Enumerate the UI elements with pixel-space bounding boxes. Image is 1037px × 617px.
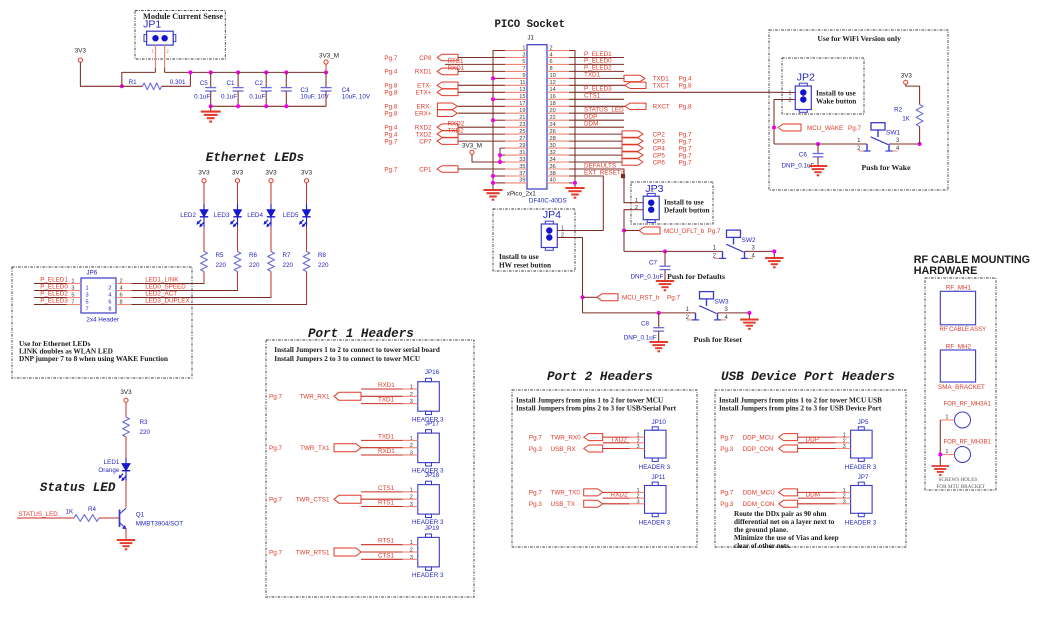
port2 note box: [512, 390, 697, 547]
svg-text:EXT_RESET#: EXT_RESET#: [584, 169, 625, 176]
JP1 note box Module Current Sense: [135, 10, 225, 59]
svg-text:HEADER 3: HEADER 3: [639, 464, 671, 471]
resistor R3 220: [123, 417, 151, 437]
svg-text:4: 4: [108, 292, 111, 298]
svg-text:Pg.8: Pg.8: [679, 83, 692, 90]
wire P_ELED2 to JP6 pin5: [34, 290, 68, 297]
wire J1 right ground rail: [569, 51, 575, 189]
svg-text:3V3: 3V3: [232, 170, 244, 177]
svg-text:LED4: LED4: [247, 212, 263, 219]
svg-text:Install Jumpers from pins 2 to: Install Jumpers from pins 2 to 3 for USB…: [516, 405, 677, 413]
ground rf: [932, 466, 950, 475]
svg-text:3: 3: [410, 555, 413, 561]
svg-text:JP17: JP17: [425, 421, 440, 428]
svg-text:Pg.7: Pg.7: [720, 490, 733, 497]
power 3V3_M: [319, 53, 339, 73]
svg-text:SCREWS HOLES: SCREWS HOLES: [939, 477, 978, 483]
resistor R6 220: [234, 252, 260, 272]
svg-text:TXD1: TXD1: [378, 397, 395, 404]
svg-text:3: 3: [410, 399, 413, 405]
wire 3V3 to R3: [125, 402, 127, 417]
wire LED5 to R8: [306, 227, 308, 252]
svg-text:P_ELED2: P_ELED2: [40, 290, 68, 297]
svg-text:TWR_TX1: TWR_TX1: [300, 445, 330, 452]
svg-text:HEADER 3: HEADER 3: [845, 464, 877, 471]
svg-text:USB_RX: USB_RX: [551, 446, 577, 453]
svg-text:C6: C6: [799, 152, 808, 159]
svg-text:39: 39: [519, 178, 525, 184]
net EXT_RESET# pin38 wire to JP4: [569, 169, 625, 230]
svg-text:0.1uF: 0.1uF: [194, 94, 210, 101]
svg-text:2: 2: [120, 279, 123, 285]
svg-text:1: 1: [522, 45, 525, 51]
svg-text:Push for Wake: Push for Wake: [862, 163, 912, 172]
svg-text:Pg.7: Pg.7: [848, 125, 861, 132]
svg-text:C7: C7: [649, 260, 658, 267]
wire 3V3 to LED5: [306, 183, 308, 204]
svg-text:Pg.7: Pg.7: [269, 497, 282, 504]
net P_ELED0 pin6: [569, 58, 624, 65]
resistor R1 0.301: [122, 79, 191, 90]
JP3 note box: [631, 182, 713, 224]
svg-text:Orange: Orange: [98, 467, 120, 474]
wire 3V3 to LED2: [203, 183, 205, 204]
title Ethernet LEDs: [206, 151, 304, 165]
svg-text:TWR_CTS1: TWR_CTS1: [296, 497, 330, 504]
power 3V3_M at J1: [462, 142, 482, 154]
svg-text:JP6: JP6: [86, 270, 97, 277]
svg-text:JP4: JP4: [543, 209, 561, 221]
title Port 2 Headers: [547, 370, 653, 384]
title Status LED: [40, 481, 116, 495]
svg-text:STATUS_LED: STATUS_LED: [18, 511, 58, 518]
ground C6: [809, 166, 827, 175]
wire SW2 to ground: [773, 251, 775, 258]
wire LED1 to Q1 collector: [125, 481, 127, 508]
svg-text:JP16: JP16: [425, 369, 440, 376]
wire JP4 pin2 to reset rail: [569, 238, 583, 313]
svg-text:5: 5: [71, 293, 74, 299]
svg-text:CP2: CP2: [653, 131, 666, 138]
ground SW3: [740, 311, 758, 329]
svg-text:0.301: 0.301: [170, 79, 186, 86]
svg-text:LED1_LINK: LED1_LINK: [145, 276, 179, 283]
svg-text:1: 1: [945, 449, 948, 455]
svg-text:1: 1: [71, 279, 74, 285]
port CP8 input: [384, 54, 505, 62]
svg-text:CTS1: CTS1: [584, 93, 601, 100]
svg-text:3V3: 3V3: [901, 73, 913, 80]
svg-text:C2: C2: [255, 80, 264, 87]
svg-text:clear of other nets.: clear of other nets.: [734, 542, 791, 550]
wire P_ELED3 to JP6 pin7: [34, 297, 68, 304]
wifi note box Use for WiFi Version only: [769, 30, 948, 190]
svg-text:3: 3: [636, 444, 639, 450]
svg-text:CP7: CP7: [419, 138, 432, 145]
svg-text:TWR_TX0: TWR_TX0: [551, 490, 581, 497]
svg-text:TXD2: TXD2: [611, 436, 628, 443]
wire 3V3 to LED3: [237, 183, 239, 204]
capacitor C3 10uF 10V: [281, 72, 330, 106]
svg-text:26: 26: [550, 129, 556, 135]
svg-text:HARDWARE: HARDWARE: [914, 265, 978, 277]
svg-text:DNP_0.1uF: DNP_0.1uF: [624, 335, 657, 342]
svg-text:6: 6: [120, 293, 123, 299]
wire 3V3 to LED4: [270, 183, 272, 204]
svg-text:13: 13: [519, 87, 525, 93]
port CP3 pin28 output: [569, 138, 692, 146]
title RF CABLE MOUNTING HARDWARE: [914, 254, 1030, 277]
mount FOR_RF_MH3B1: [940, 440, 991, 463]
connector JP19 HEADER 3: [403, 525, 444, 579]
net alias RXD2 pin23: [448, 121, 465, 128]
svg-text:CTS1: CTS1: [378, 552, 395, 559]
port DDM_MCU JP7: [720, 489, 835, 497]
net DEFAULTS pin36 wire to JP3: [569, 162, 631, 202]
svg-text:P_ELED3: P_ELED3: [40, 297, 68, 304]
wire R3 to LED1: [125, 437, 127, 458]
svg-text:1: 1: [945, 414, 948, 420]
svg-text:DDP: DDP: [584, 114, 597, 121]
svg-text:3V3: 3V3: [265, 170, 277, 177]
svg-text:FOR_RF_MH3B1: FOR_RF_MH3B1: [944, 440, 992, 446]
svg-text:MCU_RST_b: MCU_RST_b: [622, 295, 660, 302]
svg-text:4: 4: [120, 286, 123, 292]
power 3V3 status: [120, 389, 132, 402]
svg-text:Install Jumpers 2 to 3 to conn: Install Jumpers 2 to 3 to connect to tow…: [274, 355, 421, 363]
ground J1 left: [483, 190, 502, 200]
wire Q1 emitter to ground: [125, 529, 127, 540]
title PICO Socket: [495, 19, 566, 31]
junction dot C6: [816, 142, 820, 146]
svg-text:3: 3: [522, 52, 525, 58]
port1 note box: [266, 340, 474, 597]
svg-text:Pg.7: Pg.7: [384, 55, 397, 62]
wire defaults rail: [624, 250, 774, 252]
resistor R2 1K: [894, 105, 923, 145]
svg-text:18: 18: [550, 101, 556, 107]
JP4 note box: [493, 209, 575, 271]
svg-text:TWR_RTS1: TWR_RTS1: [296, 549, 330, 556]
capacitor C4 10uF 10V: [321, 72, 371, 106]
net alias CTS1 JP18 pin1: [361, 485, 403, 492]
svg-text:RXD1: RXD1: [378, 382, 395, 389]
svg-text:1: 1: [410, 385, 413, 391]
svg-text:DDP: DDP: [806, 436, 819, 443]
svg-text:Push for Defaults: Push for Defaults: [667, 272, 725, 281]
net alias RXD2 JP11 pin2: [603, 492, 630, 499]
svg-text:TXD1: TXD1: [378, 433, 395, 440]
svg-text:JP10: JP10: [652, 419, 667, 426]
svg-text:SW3: SW3: [715, 298, 729, 305]
net DDP pin22: [569, 114, 624, 121]
junction dot C7: [663, 249, 667, 253]
svg-text:P_ELED2: P_ELED2: [584, 65, 612, 72]
svg-text:CTS1: CTS1: [378, 485, 395, 492]
svg-text:C5: C5: [200, 80, 209, 87]
svg-text:Install Jumpers from pins 2 to: Install Jumpers from pins 2 to 3 for USB…: [719, 405, 882, 413]
svg-text:R1: R1: [129, 79, 138, 86]
svg-text:RXCT: RXCT: [653, 104, 670, 111]
connector JP11 HEADER 3: [630, 474, 671, 526]
power 3V3 ethernet col 3: [265, 170, 277, 183]
wire 3V3_M bus: [165, 71, 326, 73]
svg-text:JP19: JP19: [425, 525, 440, 532]
svg-text:220: 220: [318, 262, 329, 269]
port DDP_MCU JP5: [720, 434, 835, 442]
svg-text:MMBT3904/SOT: MMBT3904/SOT: [136, 521, 183, 528]
port ERX- input: [384, 103, 505, 111]
junction dot MCU_WAKE: [772, 126, 776, 130]
svg-text:CP1: CP1: [419, 166, 432, 173]
svg-text:2x4 Header: 2x4 Header: [86, 317, 119, 324]
net alias DDM JP7 pin2: [798, 492, 836, 499]
svg-text:Pg.8: Pg.8: [384, 83, 397, 90]
svg-text:C1: C1: [227, 80, 236, 87]
svg-text:HEADER 3: HEADER 3: [845, 519, 877, 526]
svg-text:Pg.7: Pg.7: [269, 394, 282, 401]
svg-text:3: 3: [410, 502, 413, 508]
switch SW2: [713, 230, 756, 260]
led LED3: [214, 204, 242, 227]
svg-text:TXD1: TXD1: [584, 72, 601, 79]
title USB Device Port Headers: [721, 370, 895, 384]
ethernet note box: [12, 267, 192, 378]
port CP7 input: [384, 138, 505, 146]
svg-text:220: 220: [283, 262, 294, 269]
wire P_ELED1 to JP6 pin1: [34, 276, 68, 283]
svg-text:1: 1: [788, 90, 791, 96]
wire P_ELED0 to JP6 pin3: [34, 283, 68, 290]
net DDM pin24: [569, 121, 624, 128]
svg-text:2: 2: [108, 285, 111, 291]
svg-text:Port 1 Headers: Port 1 Headers: [308, 327, 414, 341]
svg-text:DNP jumper 7 to 8 when using W: DNP jumper 7 to 8 when using WAKE Functi…: [19, 354, 168, 363]
svg-text:0.1uF: 0.1uF: [221, 94, 237, 101]
capacitor C7 DNP_0.1uF: [631, 251, 671, 281]
port TWR_CTS1 JP18 pin2: [269, 495, 403, 503]
svg-text:220: 220: [216, 262, 227, 269]
svg-text:Pg.8: Pg.8: [679, 104, 692, 111]
svg-text:R6: R6: [249, 252, 258, 259]
svg-text:3: 3: [410, 451, 413, 457]
title Port 1 Headers: [308, 327, 414, 341]
svg-text:R3: R3: [140, 419, 149, 426]
svg-text:1: 1: [410, 436, 413, 442]
svg-text:ETX-: ETX-: [417, 83, 431, 90]
svg-text:JP7: JP7: [858, 474, 869, 481]
svg-text:Pg.7: Pg.7: [529, 434, 542, 441]
svg-text:STATUS_LED: STATUS_LED: [584, 107, 624, 114]
switch SW1: [857, 123, 900, 153]
mount FOR_RF_MH3A1: [940, 402, 991, 429]
svg-text:DF40C-40DS: DF40C-40DS: [529, 198, 567, 205]
net alias TXD1 JP16 pin3: [361, 397, 403, 404]
wire R4 to Q1 base: [99, 517, 120, 519]
svg-text:FOR_RF_MH3A1: FOR_RF_MH3A1: [944, 402, 992, 408]
svg-text:Pg.7: Pg.7: [667, 295, 680, 302]
power 3V3 ethernet col 4: [301, 170, 313, 183]
net alias RXD1 pin7: [448, 65, 465, 72]
junction dot C5 ground: [209, 104, 213, 108]
svg-text:3: 3: [843, 499, 846, 505]
svg-text:220: 220: [249, 262, 260, 269]
connector JP5 HEADER 3: [836, 419, 877, 471]
svg-text:Status LED: Status LED: [40, 481, 116, 495]
svg-text:2: 2: [788, 98, 791, 104]
wire 3V3_M to pins 29 31 33: [472, 148, 505, 162]
svg-text:2: 2: [635, 205, 638, 211]
svg-text:7: 7: [71, 300, 74, 306]
svg-text:Install Jumpers from pins 1 to: Install Jumpers from pins 1 to 2 for tow…: [719, 397, 882, 405]
net label LED0_SPEED: [145, 283, 186, 290]
capacitor C5 0.1uF: [194, 72, 216, 106]
svg-text:LED5: LED5: [283, 212, 299, 219]
svg-text:1: 1: [410, 540, 413, 546]
svg-text:ETX+: ETX+: [416, 90, 432, 97]
port RXD1 input: [384, 68, 505, 76]
svg-text:Pg.7: Pg.7: [708, 228, 721, 235]
svg-text:29: 29: [519, 143, 525, 149]
svg-text:Pg.7: Pg.7: [529, 490, 542, 497]
port TWR_RTS1 JP19 pin2: [269, 548, 403, 556]
connector JP16 HEADER 3: [403, 369, 444, 423]
junction dot C8: [657, 311, 661, 315]
resistor R5 220: [201, 252, 227, 272]
port USB_TX JP11: [529, 500, 630, 508]
led LED2: [180, 204, 208, 227]
svg-text:Pg.7: Pg.7: [679, 159, 692, 166]
svg-text:2: 2: [561, 233, 564, 239]
power 3V3 ethernet col 2: [232, 170, 244, 183]
port TWR_RX1 JP16 pin2: [269, 392, 403, 400]
svg-text:HEADER 3: HEADER 3: [639, 519, 671, 526]
svg-text:10uF, 10V: 10uF, 10V: [342, 94, 371, 101]
connector J1 body xPico_2x1 DF40C-40DS: [507, 36, 567, 205]
svg-text:RTS1: RTS1: [448, 58, 464, 65]
svg-text:SW2: SW2: [742, 237, 756, 244]
power 3V3: [75, 48, 87, 63]
port ETX- input: [384, 82, 505, 90]
led LED5: [283, 204, 311, 227]
svg-text:TXD2: TXD2: [448, 128, 465, 135]
svg-text:31: 31: [519, 150, 525, 156]
net STATUS_LED pin20: [569, 107, 624, 114]
svg-text:0.1uF: 0.1uF: [249, 94, 265, 101]
wire rf mounts to ground: [939, 420, 941, 466]
svg-text:MCU_WAKE: MCU_WAKE: [807, 125, 843, 132]
svg-text:ERX+: ERX+: [415, 111, 432, 118]
connector JP18 HEADER 3: [403, 472, 444, 526]
svg-text:7: 7: [86, 306, 89, 312]
svg-text:MCU_DFLT_b: MCU_DFLT_b: [664, 228, 705, 235]
svg-text:Ethernet LEDs: Ethernet LEDs: [206, 151, 304, 165]
junction dots 3V3_M bus: [188, 70, 328, 74]
svg-text:HEADER 3: HEADER 3: [412, 572, 444, 579]
wire JP1 pins to bus: [155, 68, 164, 72]
svg-text:TWR_RX0: TWR_RX0: [551, 434, 582, 441]
svg-text:3V3: 3V3: [198, 170, 210, 177]
net alias RXD1 JP17 pin3: [361, 448, 403, 455]
svg-text:JP18: JP18: [425, 472, 440, 479]
svg-text:CP6: CP6: [653, 159, 666, 166]
mount RF_MH1 RF CABLE ASSY: [940, 285, 987, 334]
svg-text:Pg.7: Pg.7: [720, 434, 733, 441]
port RXCT pin18 input: [569, 103, 692, 111]
svg-text:JP2: JP2: [797, 72, 815, 84]
svg-text:Pg.7: Pg.7: [679, 145, 692, 152]
wire cap ground rail: [211, 105, 326, 107]
wire LED3 to R6: [237, 227, 239, 252]
svg-text:RXD1: RXD1: [415, 69, 432, 76]
svg-text:TXD2: TXD2: [415, 131, 432, 138]
net P_ELED1 pin4: [569, 51, 624, 58]
ground main rail: [201, 106, 221, 121]
svg-text:P_ELED3: P_ELED3: [584, 86, 612, 93]
svg-text:DNP_0.1uF: DNP_0.1uF: [631, 274, 664, 281]
svg-text:2: 2: [410, 495, 413, 501]
svg-text:15: 15: [519, 94, 525, 100]
JP2 note box: [782, 58, 864, 114]
svg-text:5: 5: [86, 299, 89, 305]
port CP2 pin26 output: [569, 131, 692, 139]
port ETX+ input: [384, 89, 505, 97]
svg-text:C8: C8: [641, 321, 650, 328]
port DDP_CON JP5: [720, 445, 835, 453]
wire wake rail: [774, 143, 920, 145]
port CP6 pin34 output: [569, 159, 692, 167]
svg-text:21: 21: [519, 115, 525, 121]
net alias TXD2 JP10 pin2: [603, 436, 630, 443]
mount RF_MH2 SMA_BRACKET: [938, 344, 985, 392]
svg-text:Pg.3: Pg.3: [529, 446, 542, 453]
svg-text:RXD2: RXD2: [611, 492, 628, 499]
net alias TXD1 JP17 pin1: [361, 433, 403, 440]
junction dot MCU_DFLT_b: [622, 229, 626, 233]
net TXD1 pin10 output: [569, 72, 692, 83]
connector JP17 HEADER 3: [403, 421, 444, 475]
svg-text:5: 5: [522, 59, 525, 65]
svg-text:DDM: DDM: [584, 121, 598, 128]
label Push for Defaults: [667, 272, 725, 281]
svg-text:3V3_M: 3V3_M: [319, 53, 339, 60]
rf note box: [925, 278, 996, 490]
svg-text:3V3: 3V3: [75, 48, 87, 55]
svg-text:RF_MH1: RF_MH1: [946, 285, 972, 292]
net label LED3_DUPLEX: [145, 297, 190, 304]
port CP1 input: [384, 166, 505, 174]
svg-text:1K: 1K: [902, 116, 911, 123]
svg-text:1K: 1K: [66, 509, 75, 516]
svg-text:JP11: JP11: [652, 474, 666, 481]
junction node R1 left: [120, 84, 124, 88]
svg-text:28: 28: [550, 136, 556, 142]
jumper JP2: [783, 72, 815, 113]
ground Q1: [117, 540, 135, 549]
svg-text:Pg.7: Pg.7: [679, 138, 692, 145]
connector JP10 HEADER 3: [630, 419, 671, 471]
net CTS1 pin16: [569, 93, 624, 100]
svg-text:P_ELED0: P_ELED0: [584, 58, 612, 65]
ground C7: [656, 281, 674, 290]
resistor R7 220: [268, 252, 294, 272]
svg-text:R5: R5: [216, 252, 225, 259]
svg-text:9: 9: [522, 73, 525, 79]
net STATUS_LED: [17, 511, 74, 518]
net alias RTS1 pin5: [445, 58, 505, 65]
svg-text:Pg.4: Pg.4: [384, 69, 397, 76]
capacitor C8 DNP_0.1uF: [624, 313, 665, 342]
